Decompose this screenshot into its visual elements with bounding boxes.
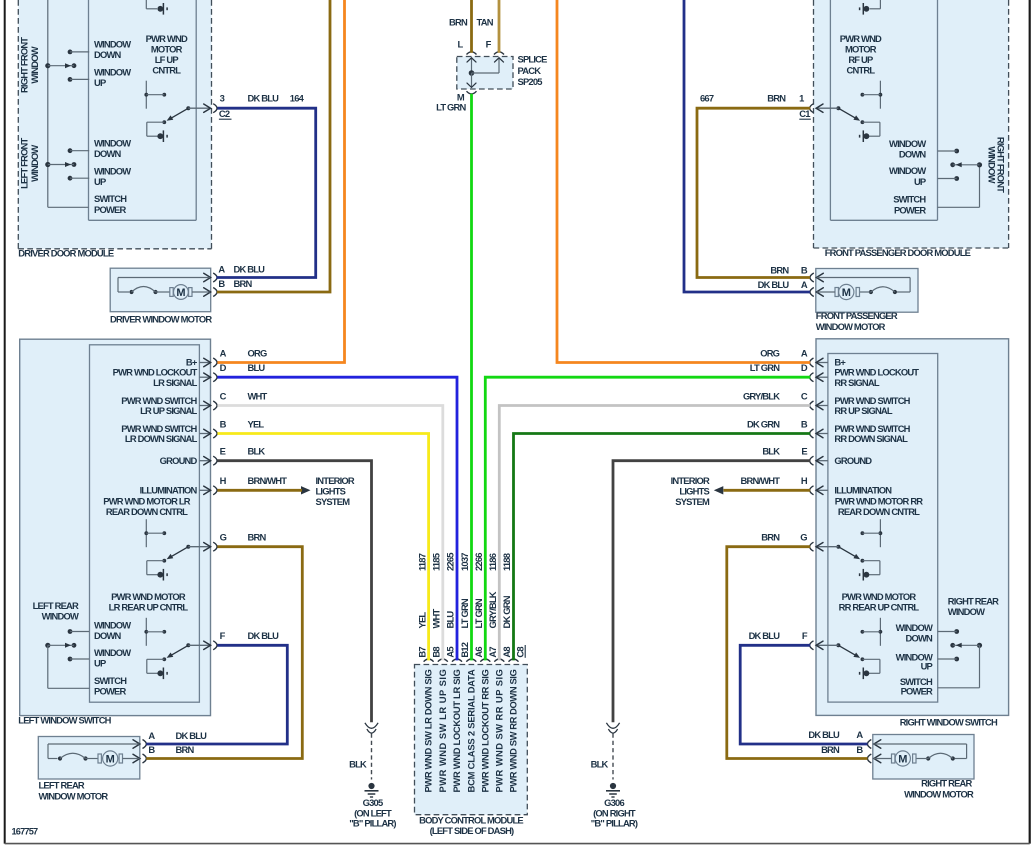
- svg-text:DK BLU: DK BLU: [248, 630, 280, 641]
- svg-text:GROUND: GROUND: [834, 455, 872, 466]
- svg-text:C1: C1: [799, 108, 810, 119]
- svg-text:UP: UP: [94, 77, 106, 88]
- svg-text:BLK: BLK: [349, 759, 367, 770]
- svg-text:H: H: [801, 475, 808, 486]
- svg-text:BRN: BRN: [449, 16, 468, 27]
- svg-text:CNTRL: CNTRL: [847, 65, 876, 76]
- svg-text:G: G: [220, 532, 227, 543]
- svg-text:PWR WND SW RR UP SIG: PWR WND SW RR UP SIG: [493, 670, 504, 793]
- svg-text:DK BLU: DK BLU: [808, 729, 840, 740]
- svg-text:PWR WND MOTOR: PWR WND MOTOR: [111, 591, 186, 602]
- svg-text:PWR WND MOTOR: PWR WND MOTOR: [842, 591, 917, 602]
- svg-text:1187: 1187: [416, 553, 427, 571]
- svg-text:PWR WND MOTOR LR: PWR WND MOTOR LR: [103, 496, 191, 507]
- svg-text:DRIVER WINDOW MOTOR: DRIVER WINDOW MOTOR: [110, 314, 212, 325]
- svg-text:PWR WND SWITCH: PWR WND SWITCH: [834, 395, 910, 406]
- svg-text:G: G: [800, 532, 807, 543]
- svg-text:RR REAR UP CNTRL: RR REAR UP CNTRL: [839, 602, 920, 613]
- svg-text:CNTRL: CNTRL: [152, 65, 181, 76]
- svg-text:B: B: [801, 264, 808, 275]
- svg-text:ILLUMINATION: ILLUMINATION: [834, 484, 892, 495]
- svg-text:1186: 1186: [487, 553, 498, 571]
- svg-text:DK BLU: DK BLU: [749, 630, 781, 641]
- svg-text:E: E: [220, 446, 226, 457]
- svg-text:UP: UP: [914, 176, 926, 187]
- svg-text:A6: A6: [473, 647, 484, 658]
- svg-text:LR DOWN SIGNAL: LR DOWN SIGNAL: [125, 433, 198, 444]
- svg-text:M: M: [106, 754, 115, 766]
- svg-text:A8: A8: [501, 647, 512, 658]
- svg-text:A: A: [801, 347, 808, 358]
- svg-text:2266: 2266: [473, 553, 484, 571]
- svg-text:B: B: [148, 744, 155, 755]
- svg-text:WINDOW: WINDOW: [986, 146, 997, 183]
- svg-text:BODY CONTROL MODULE: BODY CONTROL MODULE: [419, 815, 523, 826]
- svg-text:WINDOW: WINDOW: [42, 611, 79, 622]
- svg-text:BLK: BLK: [762, 446, 780, 457]
- svg-text:B8: B8: [431, 647, 442, 658]
- svg-text:1: 1: [799, 92, 804, 103]
- svg-text:WINDOW: WINDOW: [94, 67, 131, 78]
- svg-text:WINDOW: WINDOW: [29, 46, 40, 83]
- svg-text:PWR WND MOTOR RR: PWR WND MOTOR RR: [835, 496, 924, 507]
- svg-text:DOWN: DOWN: [899, 149, 927, 160]
- svg-text:SP205: SP205: [518, 76, 543, 87]
- svg-text:PACK: PACK: [518, 65, 542, 76]
- svg-text:M: M: [842, 287, 851, 299]
- svg-text:WINDOW: WINDOW: [94, 138, 131, 149]
- svg-text:PWR WND SWITCH: PWR WND SWITCH: [121, 423, 197, 434]
- svg-text:LEFT REAR: LEFT REAR: [39, 780, 85, 791]
- svg-text:LEFT REAR: LEFT REAR: [33, 600, 79, 611]
- svg-text:LF UP: LF UP: [155, 54, 179, 65]
- svg-text:RR UP SIGNAL: RR UP SIGNAL: [834, 405, 892, 416]
- svg-text:WHT: WHT: [248, 390, 268, 401]
- svg-text:1037: 1037: [459, 553, 470, 571]
- svg-text:BRN: BRN: [176, 744, 195, 755]
- svg-text:DOWN: DOWN: [94, 49, 122, 60]
- svg-text:M: M: [176, 287, 185, 299]
- svg-text:YEL: YEL: [248, 418, 265, 429]
- svg-text:BRN: BRN: [770, 264, 789, 275]
- svg-text:PWR WND SW LR UP SIG: PWR WND SW LR UP SIG: [437, 670, 448, 793]
- svg-text:167757: 167757: [12, 827, 39, 837]
- svg-text:BCM CLASS 2 SERIAL DATA: BCM CLASS 2 SERIAL DATA: [465, 669, 476, 793]
- svg-text:PWR WND LOCKOUT RR SIG: PWR WND LOCKOUT RR SIG: [479, 670, 490, 793]
- svg-text:A: A: [856, 729, 863, 740]
- svg-text:TAN: TAN: [477, 16, 494, 27]
- svg-text:RF UP: RF UP: [848, 54, 873, 65]
- svg-text:WINDOW: WINDOW: [896, 622, 933, 633]
- svg-text:B7: B7: [416, 647, 427, 658]
- svg-text:BRN: BRN: [234, 278, 253, 289]
- svg-text:PWR WND SW RR DOWN SIG: PWR WND SW RR DOWN SIG: [508, 670, 519, 793]
- svg-text:BLK: BLK: [591, 759, 609, 770]
- svg-text:A: A: [218, 263, 225, 274]
- svg-text:LIGHTS: LIGHTS: [316, 486, 346, 497]
- svg-text:MOTOR: MOTOR: [151, 44, 183, 55]
- svg-text:PWR WND: PWR WND: [146, 33, 188, 44]
- svg-text:LIGHTS: LIGHTS: [679, 486, 709, 497]
- svg-text:BRN: BRN: [767, 92, 786, 103]
- svg-text:B: B: [856, 744, 863, 755]
- svg-text:B12: B12: [459, 642, 470, 657]
- svg-text:2265: 2265: [445, 553, 456, 571]
- svg-text:667: 667: [700, 92, 714, 103]
- svg-text:RR DOWN SIGNAL: RR DOWN SIGNAL: [834, 433, 908, 444]
- svg-text:C8: C8: [514, 647, 525, 658]
- svg-text:DOWN: DOWN: [94, 630, 122, 641]
- svg-text:DRIVER DOOR MODULE: DRIVER DOOR MODULE: [18, 247, 114, 258]
- svg-text:WHT: WHT: [431, 608, 442, 628]
- svg-text:BRN: BRN: [761, 532, 780, 543]
- svg-text:B: B: [220, 418, 227, 429]
- svg-text:WINDOW MOTOR: WINDOW MOTOR: [39, 791, 109, 802]
- svg-text:PWR WND LOCKOUT: PWR WND LOCKOUT: [113, 367, 198, 378]
- svg-text:DK BLU: DK BLU: [234, 263, 266, 274]
- svg-text:WINDOW: WINDOW: [889, 165, 926, 176]
- svg-text:SWITCH: SWITCH: [94, 193, 127, 204]
- svg-text:DK BLU: DK BLU: [176, 730, 208, 741]
- svg-text:PWR WND SW LR DOWN SIG: PWR WND SW LR DOWN SIG: [423, 670, 434, 793]
- svg-text:ORG: ORG: [248, 347, 267, 358]
- svg-text:YEL: YEL: [416, 612, 427, 629]
- svg-text:PWR WND SWITCH: PWR WND SWITCH: [834, 423, 910, 434]
- svg-text:DOWN: DOWN: [906, 632, 934, 643]
- svg-text:WINDOW MOTOR: WINDOW MOTOR: [904, 789, 974, 800]
- svg-text:FRONT PASSENGER: FRONT PASSENGER: [816, 310, 898, 321]
- svg-text:164: 164: [290, 92, 305, 103]
- svg-text:PWR WND LOCKOUT LR SIG: PWR WND LOCKOUT LR SIG: [451, 670, 462, 793]
- svg-text:C: C: [801, 390, 808, 401]
- svg-text:LT GRN: LT GRN: [473, 598, 484, 628]
- svg-text:UP: UP: [94, 658, 106, 669]
- svg-text:A7: A7: [487, 647, 498, 658]
- svg-text:LR UP SIGNAL: LR UP SIGNAL: [140, 405, 197, 416]
- svg-text:3: 3: [220, 92, 225, 103]
- svg-text:SWITCH: SWITCH: [94, 675, 127, 686]
- svg-text:BRN: BRN: [248, 532, 267, 543]
- svg-text:POWER: POWER: [894, 205, 926, 216]
- svg-text:WINDOW: WINDOW: [94, 39, 131, 50]
- svg-text:G305: G305: [363, 797, 383, 808]
- svg-text:RIGHT WINDOW SWITCH: RIGHT WINDOW SWITCH: [900, 717, 998, 728]
- svg-text:BLK: BLK: [248, 446, 266, 457]
- svg-text:H: H: [220, 475, 227, 486]
- svg-text:SYSTEM: SYSTEM: [675, 496, 710, 507]
- svg-text:LR SIGNAL: LR SIGNAL: [153, 377, 197, 388]
- svg-text:A: A: [148, 730, 155, 741]
- svg-text:PWR WND: PWR WND: [840, 33, 882, 44]
- svg-text:A: A: [220, 347, 227, 358]
- svg-text:REAR DOWN CNTRL: REAR DOWN CNTRL: [838, 506, 920, 517]
- svg-text:UP: UP: [94, 176, 106, 187]
- svg-text:B: B: [801, 418, 808, 429]
- svg-text:GRY/BLK: GRY/BLK: [487, 591, 498, 628]
- svg-text:RIGHT REAR: RIGHT REAR: [921, 778, 972, 789]
- svg-text:WINDOW: WINDOW: [29, 145, 40, 182]
- svg-text:SWITCH: SWITCH: [893, 194, 926, 205]
- svg-text:PWR WND SWITCH: PWR WND SWITCH: [121, 395, 197, 406]
- svg-text:1185: 1185: [431, 553, 442, 571]
- svg-text:(LEFT SIDE OF DASH): (LEFT SIDE OF DASH): [430, 825, 514, 836]
- svg-text:E: E: [801, 446, 807, 457]
- svg-text:INTERIOR: INTERIOR: [316, 475, 355, 486]
- svg-text:REAR DOWN CNTRL: REAR DOWN CNTRL: [106, 506, 188, 517]
- svg-text:POWER: POWER: [94, 685, 126, 696]
- svg-text:B: B: [218, 278, 225, 289]
- svg-text:BRN/WHT: BRN/WHT: [248, 475, 288, 486]
- svg-text:INTERIOR: INTERIOR: [671, 475, 710, 486]
- svg-text:UP: UP: [921, 661, 933, 672]
- svg-text:DK GRN: DK GRN: [747, 418, 780, 429]
- svg-text:ILLUMINATION: ILLUMINATION: [140, 484, 198, 495]
- svg-text:DK GRN: DK GRN: [501, 595, 512, 628]
- svg-text:C2: C2: [219, 108, 230, 119]
- svg-text:FRONT PASSENGER DOOR MODULE: FRONT PASSENGER DOOR MODULE: [825, 247, 971, 258]
- svg-text:A: A: [801, 279, 808, 290]
- svg-text:M: M: [898, 754, 907, 766]
- svg-text:SYSTEM: SYSTEM: [316, 496, 351, 507]
- svg-text:LT GRN: LT GRN: [436, 102, 466, 113]
- svg-text:DK BLU: DK BLU: [758, 279, 790, 290]
- svg-text:WINDOW: WINDOW: [948, 606, 985, 617]
- svg-text:DOWN: DOWN: [94, 148, 122, 159]
- svg-text:MOTOR: MOTOR: [845, 44, 877, 55]
- svg-text:"B" PILLAR): "B" PILLAR): [591, 818, 638, 829]
- svg-text:GROUND: GROUND: [160, 455, 198, 466]
- svg-text:ORG: ORG: [760, 347, 779, 358]
- svg-text:RR SIGNAL: RR SIGNAL: [834, 377, 879, 388]
- svg-text:"B" PILLAR): "B" PILLAR): [349, 818, 396, 829]
- svg-text:G306: G306: [604, 797, 624, 808]
- svg-text:LEFT WINDOW SWITCH: LEFT WINDOW SWITCH: [18, 715, 111, 726]
- svg-text:PWR WND LOCKOUT: PWR WND LOCKOUT: [834, 367, 919, 378]
- svg-text:WINDOW: WINDOW: [94, 647, 131, 658]
- svg-text:SPLICE: SPLICE: [518, 54, 548, 65]
- svg-text:WINDOW MOTOR: WINDOW MOTOR: [816, 321, 886, 332]
- svg-text:GRY/BLK: GRY/BLK: [743, 390, 780, 401]
- svg-text:LT GRN: LT GRN: [459, 598, 470, 628]
- svg-text:BLU: BLU: [445, 611, 456, 629]
- svg-text:1188: 1188: [501, 553, 512, 571]
- svg-text:BRN/WHT: BRN/WHT: [741, 475, 781, 486]
- svg-text:A5: A5: [445, 647, 456, 658]
- svg-text:BRN: BRN: [821, 744, 840, 755]
- svg-text:WINDOW: WINDOW: [94, 165, 131, 176]
- svg-text:DK BLU: DK BLU: [248, 92, 280, 103]
- svg-text:WINDOW: WINDOW: [94, 620, 131, 631]
- svg-text:LR REAR UP CNTRL: LR REAR UP CNTRL: [109, 602, 189, 613]
- svg-text:POWER: POWER: [94, 204, 126, 215]
- svg-text:C: C: [220, 390, 227, 401]
- svg-text:POWER: POWER: [901, 686, 933, 697]
